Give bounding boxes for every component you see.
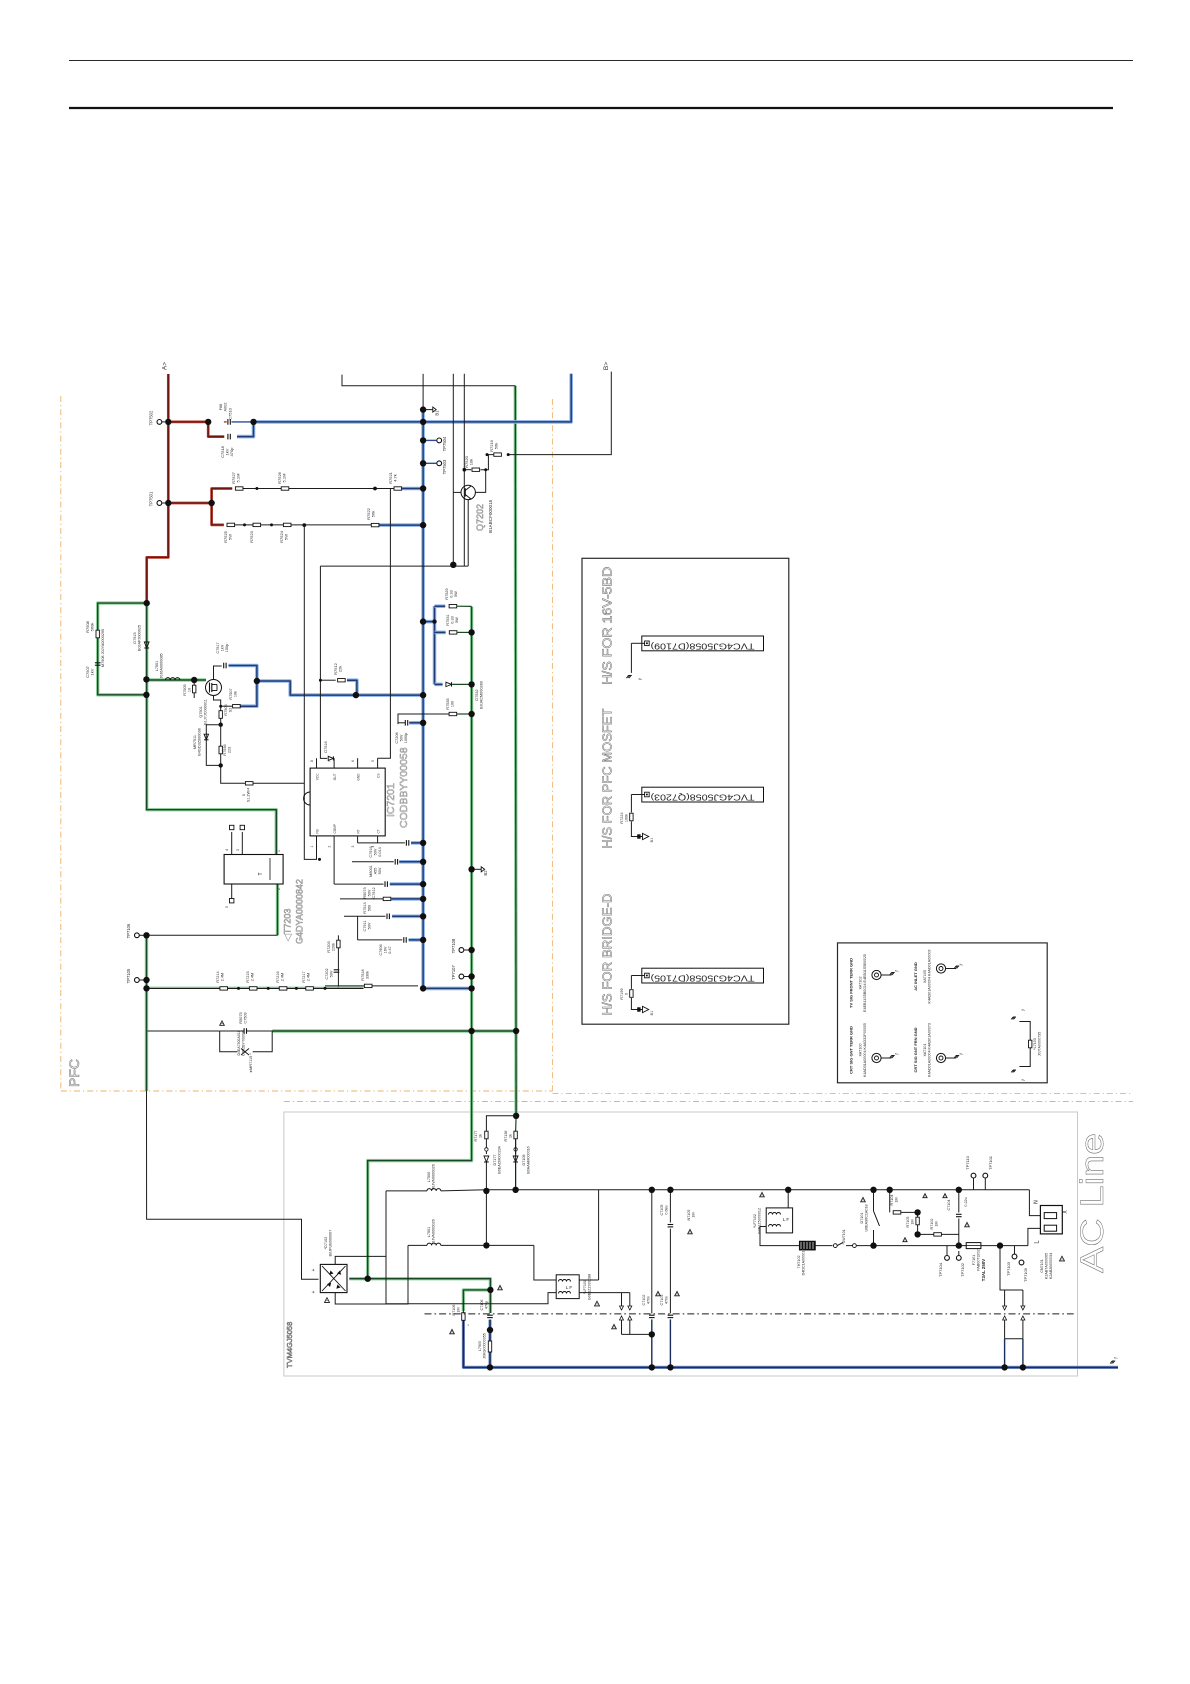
svg-text:100k: 100k [625, 814, 629, 822]
wire: row2 drop to IC [304, 525, 316, 859]
svg-text:50V: 50V [378, 867, 382, 874]
svg-text:M8001: M8001 [369, 865, 373, 877]
junction [487, 1364, 493, 1370]
svg-text:3: 3 [351, 845, 355, 847]
svg-text:1M: 1M [692, 1212, 696, 1217]
junction [956, 1187, 962, 1193]
svg-text:H/S FOR BRIDGE-D: H/S FOR BRIDGE-D [600, 894, 615, 1016]
svg-text:C7510: C7510 [228, 407, 233, 420]
svg-text:R7136: R7136 [504, 1131, 508, 1142]
capacitor C7911 [344, 915, 386, 917]
junction [649, 1187, 655, 1193]
svg-text:R7177: R7177 [474, 1131, 478, 1142]
capacitor C7914 [334, 883, 383, 885]
wire: Q7202 base link [475, 470, 485, 493]
junction [250, 419, 256, 425]
svg-text:C7906: C7906 [379, 944, 383, 955]
wire: maroon to TP7501 node [168, 502, 211, 505]
junction [420, 913, 426, 919]
svg-text:jf: jf [959, 1053, 963, 1056]
junction [205, 419, 211, 425]
isolation dashed line [425, 1313, 1074, 1315]
wire: fuse to inlet [981, 1245, 1028, 1247]
wire: B feedback from B> arrow [508, 372, 611, 455]
transformer T7203 body [224, 855, 283, 885]
capacitor C7507 [95, 662, 101, 664]
svg-text:C7105: C7105 [660, 1205, 664, 1216]
resistor R7216 [279, 987, 287, 990]
junction [914, 1209, 920, 1215]
svg-text:5W: 5W [284, 534, 289, 540]
svg-text:L F: L F [783, 1217, 790, 1222]
junction [420, 937, 426, 943]
svg-text:XAT101: XAT101 [923, 1043, 927, 1056]
svg-text:AC INLET GND: AC INLET GND [913, 962, 918, 991]
resistor R7217 [306, 987, 314, 990]
svg-text:)(: )( [1062, 1210, 1068, 1214]
svg-text:jf: jf [895, 970, 899, 973]
junction [1020, 1364, 1026, 1370]
junction [887, 1187, 893, 1193]
svg-text:T3AL 250V: T3AL 250V [981, 1259, 986, 1281]
ground terminal XAT102 [872, 970, 881, 979]
svg-text:1M: 1M [911, 1219, 915, 1224]
svg-text:TP7109: TP7109 [1023, 1267, 1028, 1282]
junction [420, 840, 426, 846]
svg-text:B0JFUB000007: B0JFUB000007 [329, 1230, 333, 1257]
wire: diode column D7107 [486, 1116, 516, 1131]
wire: maroon to R7525 chain [212, 503, 224, 525]
wire: snubber loop (green) [98, 603, 147, 695]
wire: C7106 lower branch (navy) [488, 1320, 491, 1368]
capacitor C7906 [358, 939, 403, 941]
AC line section frame [284, 1112, 1078, 1376]
svg-text:B1: B1 [650, 838, 654, 843]
junction [420, 692, 426, 698]
wire: aux vertical 1 [452, 374, 454, 565]
test point TP7504 [437, 438, 442, 443]
wire: B+ horizontal bus (blue) [254, 374, 572, 422]
svg-text:10k: 10k [234, 691, 238, 697]
svg-text:L7900: L7900 [478, 1341, 482, 1351]
transformer LF7101 [556, 1275, 579, 1299]
svg-text:B4GD3Z000038: B4GD3Z000038 [198, 728, 202, 755]
svg-text:J0JVA0000026: J0JVA0000026 [432, 1164, 436, 1189]
wire: R7219 to R7520 [480, 455, 494, 470]
junction [420, 522, 426, 528]
svg-text:R7506: R7506 [224, 704, 228, 715]
wire: R7512 tap [320, 679, 335, 681]
svg-text:1: 1 [310, 845, 314, 847]
svg-text:0.33: 0.33 [450, 590, 454, 597]
svg-text:5.1M: 5.1M [236, 474, 241, 483]
svg-text:R7523: R7523 [249, 530, 254, 543]
wire: top line to inlet [1029, 1190, 1040, 1216]
svg-text:L7500: L7500 [427, 1172, 431, 1183]
svg-text:1k: 1k [479, 1134, 483, 1138]
wire: R7507 link [221, 705, 233, 707]
svg-text:T: T [258, 872, 264, 875]
svg-text:GND: GND [357, 773, 361, 781]
svg-text:TP7101: TP7101 [988, 1155, 993, 1170]
junction [143, 676, 149, 682]
svg-text:470p: 470p [485, 1301, 489, 1309]
svg-text:TP7501: TP7501 [149, 491, 154, 506]
svg-text:50V: 50V [400, 734, 404, 741]
svg-text:B1: B1 [650, 1011, 654, 1016]
test point TP7103 [1012, 1254, 1017, 1259]
svg-text:D7177: D7177 [493, 1155, 497, 1166]
capacitor C7509 [243, 1028, 245, 1034]
heatsink info box [582, 558, 789, 1024]
svg-text:C7208: C7208 [395, 732, 399, 743]
junction [143, 977, 149, 983]
svg-text:PFC: PFC [66, 1059, 82, 1087]
svg-text:TP7504: TP7504 [442, 436, 447, 451]
svg-text:J0JTA0000735: J0JTA0000735 [1038, 1032, 1042, 1057]
wire: bridge bottom link [335, 1245, 408, 1304]
svg-text:R7215: R7215 [246, 971, 250, 982]
wire: VCC feed [398, 714, 449, 724]
svg-text:J0JVA0000026: J0JVA0000026 [432, 1219, 436, 1244]
svg-text:B1ABCF000015: B1ABCF000015 [488, 499, 493, 533]
wire: source chain [214, 696, 246, 784]
junction [144, 600, 150, 606]
wire: emitter line [320, 565, 468, 567]
test point TP7106 [135, 933, 140, 938]
svg-text:1M: 1M [935, 1221, 939, 1226]
svg-text:F7101: F7101 [972, 1255, 976, 1265]
svg-text:C7912: C7912 [372, 887, 376, 898]
capacitor C7916 [358, 842, 405, 844]
svg-text:H/S FOR PFC MOSFET: H/S FOR PFC MOSFET [600, 709, 615, 849]
test point TP7109 [1019, 1260, 1024, 1265]
wire: inrush line [147, 1030, 219, 1032]
svg-text:330k: 330k [366, 971, 370, 979]
resistor R7214 [220, 987, 228, 990]
resistor R7535 [449, 712, 457, 715]
svg-text:CN7101: CN7101 [1040, 1259, 1044, 1273]
svg-text:K4AD31A00004 K4AD32P00005: K4AD31A00004 K4AD32P00005 [863, 1023, 867, 1077]
discharge L7900 [488, 1341, 491, 1352]
svg-text:R7529: R7529 [445, 588, 449, 599]
svg-text:560k: 560k [90, 623, 95, 632]
svg-text:TP7502: TP7502 [149, 410, 154, 425]
svg-text:R5075: R5075 [239, 1012, 243, 1023]
wire: C7106 branch (green) [489, 1290, 492, 1313]
svg-text:B0AAHM000016: B0AAHM000016 [527, 1146, 531, 1173]
junction source [219, 723, 223, 727]
junction [165, 419, 171, 425]
wire: T7203 pin2 (green) [276, 884, 279, 935]
test point TP7102 [956, 1256, 961, 1261]
svg-text:S2: S2 [229, 708, 233, 713]
svg-text:223: 223 [228, 747, 232, 753]
resistor R7202 column [337, 935, 339, 988]
transistor Q7202 [461, 485, 475, 499]
svg-text:K2AB2B000034: K2AB2B000034 [1049, 1253, 1053, 1279]
test point TP7105 [135, 978, 140, 983]
resistor R7521 [394, 487, 402, 490]
svg-text:J0J6A0000085: J0J6A0000085 [160, 653, 164, 678]
svg-text:0.014: 0.014 [378, 847, 382, 857]
junction [468, 711, 474, 717]
capacitor C7106 [487, 1314, 493, 1316]
svg-text:VCC: VCC [316, 773, 320, 780]
MOSFET Q7501 [206, 680, 222, 696]
junction [420, 985, 426, 991]
capacitor C7915 [352, 861, 394, 863]
wire: T7203 return [147, 934, 278, 936]
svg-text:+: + [311, 1290, 317, 1293]
svg-text:TVC4GJ5058(Q7203): TVC4GJ5058(Q7203) [650, 793, 755, 802]
wire: zero-cross line (green) [272, 1029, 516, 1032]
ground terminal box [838, 943, 1048, 1083]
svg-text:C7202: C7202 [325, 968, 329, 979]
wire: maroon to C7510 [168, 421, 208, 424]
wire: AC top line [486, 1189, 1029, 1191]
AC inlet connector CN7101 [1040, 1206, 1062, 1234]
header rule thin [69, 60, 1133, 62]
svg-text:R7505: R7505 [183, 684, 187, 695]
junction [420, 437, 426, 443]
junction [870, 1242, 876, 1248]
svg-text:S1.2W/4: S1.2W/4 [247, 788, 251, 803]
svg-text:2.4M: 2.4M [251, 973, 255, 981]
net arrow B1 [423, 409, 433, 411]
svg-text:TP7108: TP7108 [451, 938, 456, 953]
svg-text:XAT102: XAT102 [859, 976, 863, 989]
wire: R7507 return (blue) [240, 681, 257, 706]
svg-text:1M: 1M [457, 1307, 461, 1312]
resistor R7523 [253, 523, 261, 526]
wire: LF7101 right bottom [579, 1292, 630, 1294]
T7203 pin bottom [231, 884, 233, 899]
interlock contacts [815, 1245, 832, 1247]
svg-text:R7102: R7102 [930, 1219, 934, 1230]
capacitor C7518 [227, 434, 229, 440]
IC7201 pins top [316, 758, 318, 768]
wire: top feed to boost rail [342, 375, 515, 386]
inductor L7501b [408, 1244, 427, 1246]
svg-text:5: 5 [225, 906, 229, 908]
heatsink screw D7109 [642, 636, 764, 651]
svg-text:C7916: C7916 [369, 846, 373, 857]
surge gap pair right [1004, 1290, 1006, 1306]
ground terminal XAT101 [936, 1053, 945, 1062]
svg-text:0.68u: 0.68u [665, 1205, 669, 1214]
test point TP7501 [157, 501, 162, 506]
diode D7516 [328, 756, 333, 760]
junction [649, 1331, 655, 1337]
svg-text:R7536: R7536 [223, 744, 227, 755]
svg-text:RT: RT [357, 829, 361, 833]
svg-text:D7101: D7101 [860, 1213, 864, 1224]
diode D7107 [484, 1156, 489, 1162]
junction gate node [191, 677, 197, 683]
wire: PFC boost rail (green) from top [514, 386, 518, 1116]
junction [956, 1242, 962, 1248]
svg-text:TP7110: TP7110 [965, 1155, 970, 1169]
ground terminal XAT100 [872, 1053, 881, 1062]
transformer LF7102 [787, 1190, 789, 1208]
svg-text:A>: A> [162, 362, 169, 370]
svg-text:B>: B> [603, 362, 610, 370]
svg-text:1M: 1M [895, 1197, 899, 1202]
svg-text:jf: jf [1114, 1357, 1118, 1360]
junction [254, 678, 260, 684]
junction [420, 460, 426, 466]
capacitor C7104 [958, 1190, 960, 1213]
svg-text:◀T7203: ◀T7203 [283, 909, 293, 941]
svg-text:10k: 10k [469, 459, 474, 465]
svg-text:TV SIG FRONT TERR GND: TV SIG FRONT TERR GND [849, 958, 854, 1008]
svg-text:R7216: R7216 [276, 971, 280, 982]
wire: PFC left bus (green) to T7203 [147, 603, 277, 854]
svg-text:TVM4GJ5058: TVM4GJ5058 [285, 1322, 294, 1368]
resistor R7135 [485, 1131, 488, 1139]
junction [487, 1327, 493, 1333]
resistor R7219 [494, 453, 502, 456]
svg-text:56k: 56k [371, 511, 376, 517]
svg-text:J0KG00000355: J0KG00000355 [483, 1333, 487, 1359]
svg-text:C7517: C7517 [216, 642, 220, 653]
svg-text:2: 2 [277, 888, 281, 890]
junction [483, 1242, 489, 1248]
svg-text:R7224: R7224 [620, 812, 624, 823]
svg-text:Q7202: Q7202 [475, 504, 485, 531]
wire: PFC output bus (green) right [368, 607, 472, 1279]
wire: drain up [214, 666, 222, 680]
svg-text:Q7501: Q7501 [199, 706, 203, 717]
junction [420, 881, 426, 887]
svg-text:470p: 470p [229, 447, 234, 457]
svg-text:TVC4GJ5058(D7105): TVC4GJ5058(D7105) [650, 974, 755, 983]
svg-text:16V: 16V [384, 946, 388, 953]
svg-text:C4DZBYY00025: C4DZBYY00025 [242, 1030, 246, 1056]
resistor R7507 [233, 705, 241, 708]
wire: Q7202 emitter link [467, 500, 469, 566]
svg-text:50V: 50V [368, 922, 372, 929]
svg-text:H/S FOR 16V-5BD: H/S FOR 16V-5BD [600, 567, 615, 685]
resistor chain row1 wire [243, 488, 395, 490]
junction [420, 720, 426, 726]
IC7201 pins bottom [316, 836, 318, 843]
svg-text:IC7201: IC7201 [385, 783, 397, 817]
wire: R7512 return (blue) [347, 680, 357, 695]
test point TP7110 [971, 1173, 976, 1178]
svg-text:OUT: OUT [333, 773, 337, 780]
svg-text:jf: jf [895, 1053, 899, 1056]
svg-text:L F: L F [566, 1285, 573, 1290]
wire: R7522 to bus (blue) [379, 523, 423, 527]
junction [513, 1113, 519, 1119]
svg-text:50V: 50V [368, 889, 372, 896]
wire: fuse line [874, 1245, 967, 1247]
wire: bus stub to shunt resistors (blue) [423, 620, 434, 624]
test point TP7107 [459, 974, 464, 979]
svg-text:C7106: C7106 [480, 1300, 484, 1311]
svg-text:*L7103: *L7103 [1033, 1038, 1037, 1050]
wire: AC live feed from PFC [147, 1091, 319, 1279]
resistor R7525 [227, 523, 235, 526]
junction [997, 1242, 1003, 1248]
svg-text:5W: 5W [228, 534, 233, 540]
svg-text:R7513: R7513 [363, 902, 367, 913]
svg-text:3: 3 [236, 849, 240, 851]
wire: protection drop [1000, 1246, 1023, 1290]
junction [667, 1187, 673, 1193]
svg-text:0: 0 [242, 794, 246, 796]
resistor R7529 [449, 605, 457, 608]
resistor chain row2 wire [234, 524, 371, 526]
thermistor TH7102 [799, 1241, 815, 1250]
svg-text:B0EACM000234: B0EACM000234 [498, 1146, 502, 1173]
svg-text:TP7503: TP7503 [442, 459, 447, 474]
wire: aux vertical 2 + Y-line [463, 374, 465, 566]
svg-text:C7104: C7104 [947, 1200, 951, 1211]
svg-text:1000p: 1000p [404, 733, 408, 744]
junction [143, 985, 149, 991]
svg-text:1kV: 1kV [90, 668, 95, 675]
test point TP7104 [945, 1256, 950, 1261]
svg-text:AC Line: AC Line [1074, 1133, 1110, 1273]
chassis mark at bus end [1112, 1360, 1115, 1362]
svg-text:B0JAPJ000025: B0JAPJ000025 [138, 625, 142, 651]
svg-text:K2AB7A000065: K2AB7A000065 [1045, 1253, 1049, 1279]
junction [420, 859, 426, 865]
wire: gate drive drop [320, 566, 327, 758]
AC-line section boundary (orange dash-dot) top [284, 1101, 1133, 1103]
wire: PFC sense bus (green) [145, 935, 148, 1091]
junction row1 [373, 487, 377, 491]
svg-text:N7105: N7105 [687, 1210, 691, 1221]
junction [870, 1187, 876, 1193]
resistor R7518 [364, 984, 372, 987]
svg-text:R7217: R7217 [302, 971, 306, 982]
svg-text:N: N [1034, 1200, 1040, 1204]
resistor R7224 [630, 813, 633, 821]
junction [420, 896, 426, 902]
inductor L7500 [386, 1190, 427, 1192]
junction [365, 1276, 371, 1282]
junction row2 [302, 523, 306, 527]
test point TP7101 [983, 1173, 988, 1178]
resistor R7136 [514, 1131, 517, 1139]
wire: B- main bus (blue) vertical [423, 410, 472, 989]
svg-text:R7507: R7507 [229, 688, 233, 699]
svg-text:1kV: 1kV [221, 644, 225, 651]
wire: MOSFET snubber to bus (blue) [229, 666, 424, 696]
junction [353, 692, 359, 698]
svg-text:C7102: C7102 [642, 1295, 646, 1306]
wire: maroon to C7518 [208, 422, 224, 437]
svg-text:TP7105: TP7105 [126, 968, 131, 983]
svg-text:D4EA7300A018: D4EA7300A018 [237, 1030, 241, 1055]
junction [468, 866, 474, 872]
svg-text:C7103: C7103 [660, 1295, 664, 1306]
svg-text:R7518: R7518 [361, 969, 365, 980]
junction R7520 [463, 468, 467, 472]
junction [914, 1231, 920, 1237]
surge loop D7511/R7536 [206, 725, 220, 766]
test point TP7502 [157, 420, 162, 425]
resistor R7522 [371, 523, 379, 526]
IC IC7201 body [310, 768, 385, 836]
svg-text:B1: B1 [435, 410, 440, 416]
heatsink screw D7105 [642, 968, 764, 983]
heatsink screw Q7203 [642, 787, 764, 802]
